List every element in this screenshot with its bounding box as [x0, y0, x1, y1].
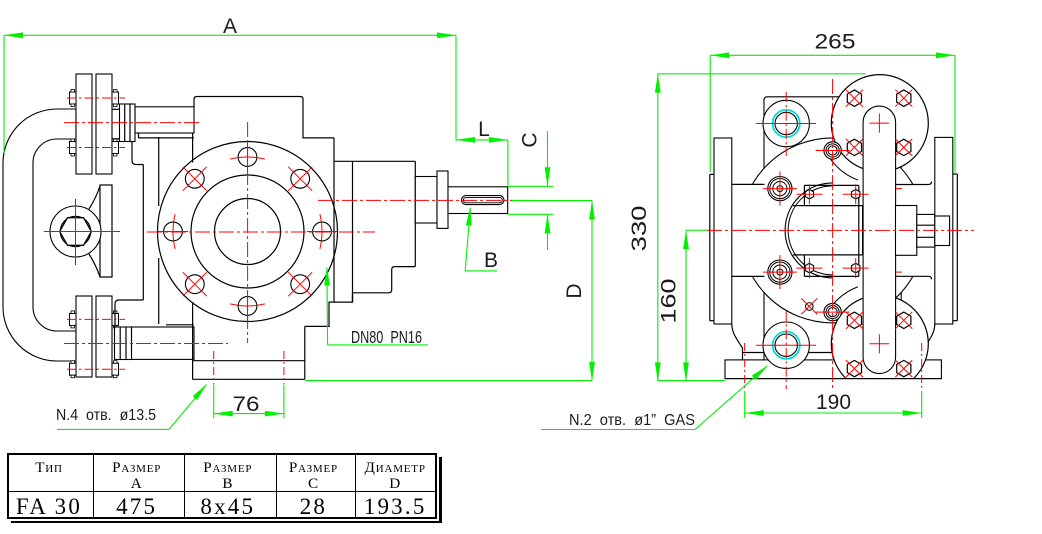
svg-text:DN80 PN16: DN80 PN16	[351, 327, 422, 347]
svg-text:D: D	[563, 283, 586, 298]
svg-text:160: 160	[658, 279, 681, 324]
svg-text:B: B	[484, 249, 498, 272]
svg-text:265: 265	[815, 31, 856, 54]
svg-text:A: A	[223, 15, 237, 38]
svg-text:L: L	[478, 118, 490, 141]
svg-text:330: 330	[628, 206, 651, 252]
svg-text:N.4 отв. ø13.5: N.4 отв. ø13.5	[56, 407, 156, 424]
svg-text:190: 190	[816, 391, 851, 414]
svg-text:C: C	[519, 132, 542, 147]
svg-text:76: 76	[233, 393, 260, 416]
svg-text:N.2 отв. ø1” GAS: N.2 отв. ø1” GAS	[569, 412, 695, 429]
